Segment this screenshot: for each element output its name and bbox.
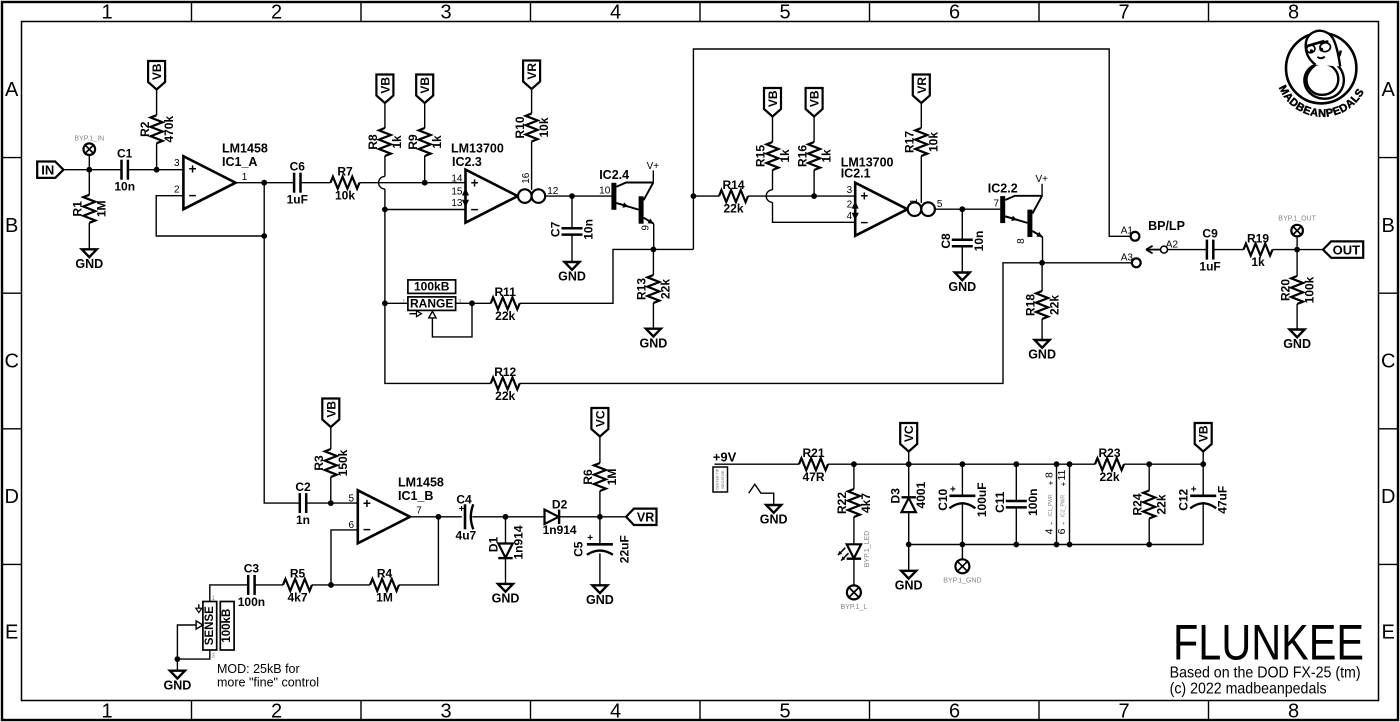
jack sleeve squiggle <box>749 484 774 505</box>
ground at C7 <box>565 262 580 270</box>
svg-text:3: 3 <box>847 185 853 196</box>
junction R14 node <box>691 193 697 199</box>
svg-text:R21: R21 <box>802 446 824 460</box>
svg-text:IC2.2: IC2.2 <box>988 182 1018 196</box>
IC1 power pins 8/4 <box>1056 464 1058 544</box>
svg-text:4: 4 <box>847 211 853 222</box>
svg-text:R1: R1 <box>71 201 85 217</box>
wire R19 to OUT node <box>1273 249 1324 251</box>
svg-text:IN: IN <box>41 163 54 178</box>
junction C8 node <box>959 206 965 212</box>
resistor R6 1M <box>594 463 606 491</box>
wire VB to R16 <box>813 117 815 143</box>
svg-text:A1: A1 <box>1121 225 1134 236</box>
wire emitter node to A3 <box>1042 262 1132 264</box>
wire VB to R2 <box>156 90 158 116</box>
resistor R4 1M <box>370 579 399 591</box>
svg-text:C: C <box>1381 350 1395 372</box>
wire BYP.1_OUT stub <box>1296 236 1298 249</box>
wire R17 to IC2.1 pin1 <box>920 156 922 203</box>
resistor R8 1k <box>379 128 391 156</box>
wire BYP.1_IN stub <box>88 155 90 170</box>
net label VR flag <box>626 509 656 525</box>
resistor R13 22k <box>647 275 659 303</box>
svg-text:BYP.1_OUT: BYP.1_OUT <box>1278 216 1316 223</box>
wire VC to R6 <box>599 437 601 464</box>
svg-text:GND: GND <box>492 592 520 606</box>
svg-text:2: 2 <box>847 200 853 211</box>
wire pin13 node to IC2.3 pin13 <box>385 209 466 211</box>
wire to GND at SENSE <box>176 659 178 671</box>
wire C6 to R7 <box>301 182 331 184</box>
wire C8 to GND <box>961 246 963 272</box>
svg-text:VR: VR <box>525 63 539 80</box>
pad A2 with arrow <box>1161 246 1168 253</box>
resistor R9 1k <box>419 128 431 156</box>
wire R16 to pin3 row <box>813 170 815 196</box>
svg-text:BYP.1_LED: BYP.1_LED <box>864 531 871 567</box>
svg-text:VC: VC <box>902 425 916 442</box>
junction R9 node <box>422 180 428 186</box>
global label OUT <box>1323 241 1363 257</box>
junction C4 node <box>436 514 442 520</box>
resistor R12 22k <box>491 377 520 389</box>
wire feedback node down to C2 row <box>264 236 300 503</box>
svg-text:CENTER TIP: CENTER TIP <box>715 468 719 490</box>
wire RANGE wiper to pin3 <box>432 303 472 337</box>
svg-text:9: 9 <box>641 225 652 231</box>
wire IC1_A output <box>236 182 295 184</box>
wire R10 to IC2.3 pin16 <box>531 142 533 190</box>
svg-text:+: + <box>1047 480 1056 485</box>
svg-text:5: 5 <box>937 199 943 210</box>
resistor R21 47R <box>799 458 828 470</box>
svg-text:+: + <box>1191 484 1197 495</box>
svg-text:C9: C9 <box>1202 226 1218 240</box>
svg-text:+: + <box>587 533 593 544</box>
wire R7 to IC2.3 pin14 <box>360 182 466 184</box>
svg-text:R15: R15 <box>754 145 768 167</box>
power flag VC (VC at rail) <box>900 423 917 452</box>
wire R1 to GND <box>88 223 90 250</box>
wire C11 top <box>1015 464 1017 501</box>
wire IC2.3 output <box>545 195 611 197</box>
svg-text:R14: R14 <box>722 178 744 192</box>
junction input node <box>86 167 92 173</box>
junction IC2.4 emitter node <box>651 247 657 253</box>
svg-text:C2: C2 <box>295 480 311 494</box>
svg-text:4: 4 <box>610 2 621 24</box>
wire pin13 node down to R12 row <box>385 210 491 384</box>
wire feedback loop top <box>693 49 1130 249</box>
resistor R19 1k <box>1244 244 1273 256</box>
resistor R24 22k <box>1143 491 1155 519</box>
svg-text:8: 8 <box>1016 238 1027 244</box>
svg-text:6: 6 <box>949 2 960 24</box>
op-amp IC2.3 LM13700 (OTA) <box>466 170 518 223</box>
svg-text:−: − <box>471 202 479 217</box>
svg-text:14: 14 <box>451 174 463 185</box>
svg-text:FLUNKEE: FLUNKEE <box>1173 614 1364 670</box>
IC2.3 output circles <box>518 189 532 203</box>
power flag VB (VB at R9) <box>416 75 433 104</box>
svg-text:LM13700: LM13700 <box>451 141 504 155</box>
svg-text:VB: VB <box>808 90 822 107</box>
svg-text:470k: 470k <box>162 116 176 143</box>
svg-text:R8: R8 <box>366 134 380 150</box>
svg-text:GND: GND <box>75 257 103 271</box>
wire output node down <box>263 183 265 236</box>
svg-text:8: 8 <box>1288 2 1299 24</box>
RANGE wiper <box>429 311 436 318</box>
svg-text:10n: 10n <box>114 180 135 194</box>
pad BYP.1_OUT pad <box>1291 225 1303 237</box>
svg-text:1k: 1k <box>390 135 404 149</box>
svg-text:1n914: 1n914 <box>543 523 577 537</box>
svg-text:100uF: 100uF <box>975 482 989 517</box>
power flag VB (VB at R16) <box>806 88 823 117</box>
svg-text:IC1_B: IC1_B <box>398 489 433 503</box>
potentiometer SENSE 100kB <box>203 602 217 651</box>
wire R24 bottom stub <box>1148 519 1150 545</box>
svg-text:47uF: 47uF <box>1216 486 1230 514</box>
power flag VB (VB at R8) <box>376 75 393 104</box>
wire VR node to C5 <box>599 517 601 545</box>
svg-text:16: 16 <box>521 172 532 184</box>
resistor R7 10k <box>331 177 360 189</box>
junction RANGE pin1 node <box>382 300 388 306</box>
svg-text:R6: R6 <box>581 469 595 485</box>
svg-text:2: 2 <box>174 185 180 196</box>
op-amp IC1_A LM1458 <box>183 156 235 209</box>
svg-text:C7: C7 <box>549 221 563 237</box>
svg-text:GND: GND <box>1283 337 1311 351</box>
wire IC1_A pin2 feedback <box>156 196 264 236</box>
svg-text:+: + <box>363 496 371 511</box>
resistor R14 22k <box>719 190 748 202</box>
svg-text:GND: GND <box>164 678 192 692</box>
wire C3 to R5 <box>255 584 283 586</box>
svg-text:E: E <box>1382 622 1395 644</box>
wire VC flag to rail <box>908 452 910 465</box>
svg-text:C: C <box>4 350 18 372</box>
capacitor C3 100n <box>247 575 250 595</box>
junction IC1_A output node <box>261 180 267 186</box>
ground at SENSE <box>170 671 185 679</box>
svg-text:IC1_PWR: IC1_PWR <box>1048 494 1054 517</box>
svg-text:R10: R10 <box>513 116 527 138</box>
svg-text:MOD: 25kB for: MOD: 25kB for <box>217 662 300 676</box>
svg-text:R17: R17 <box>903 131 917 153</box>
svg-text:A3: A3 <box>1121 252 1134 263</box>
svg-text:R18: R18 <box>1023 294 1037 316</box>
ground at C5 <box>592 585 607 593</box>
svg-text:V+: V+ <box>647 161 660 172</box>
wire VB flag to rail <box>1202 452 1204 465</box>
svg-text:15: 15 <box>451 187 463 198</box>
svg-text:1uF: 1uF <box>287 193 308 207</box>
LED BYP.1_LED <box>847 544 861 558</box>
svg-text:22uF: 22uF <box>617 535 631 563</box>
madbeanpedals logo <box>1286 31 1356 104</box>
resistor R20 100k <box>1291 276 1303 304</box>
op-amp IC2.1 LM13700 (OTA) <box>855 183 907 236</box>
junction VC node <box>906 461 912 467</box>
svg-text:3: 3 <box>440 700 451 722</box>
wire C10 bottom <box>961 502 963 545</box>
svg-text:C10: C10 <box>936 488 950 510</box>
svg-text:7: 7 <box>1118 700 1129 722</box>
wire R9 to pin14 row <box>424 156 426 183</box>
svg-text:IC2.3: IC2.3 <box>452 155 482 169</box>
svg-text:1k: 1k <box>430 135 444 149</box>
wire D1 stub <box>505 517 507 544</box>
ground at C8 <box>955 273 970 281</box>
wire R13 stub <box>652 249 654 275</box>
wire C3 to SENSE pin1 <box>210 585 248 602</box>
ground at jack sleeve <box>766 505 781 513</box>
junction R24 node <box>1146 461 1152 467</box>
svg-text:C8: C8 <box>939 233 953 249</box>
svg-text:GND: GND <box>640 336 668 350</box>
svg-text:C11: C11 <box>993 491 1007 513</box>
junction R16 node <box>811 193 817 199</box>
wire R3 to pin5 node <box>330 477 332 503</box>
svg-text:VR: VR <box>637 510 654 524</box>
global label IN <box>37 162 63 178</box>
svg-text:4001: 4001 <box>914 481 928 508</box>
svg-text:E: E <box>5 622 18 644</box>
svg-text:8: 8 <box>1043 472 1055 478</box>
svg-text:22k: 22k <box>1099 470 1119 484</box>
svg-text:D1: D1 <box>486 537 500 553</box>
svg-text:1n914: 1n914 <box>512 525 526 559</box>
svg-text:R5: R5 <box>290 567 306 581</box>
diode D3 4001 <box>902 496 916 498</box>
svg-text:1uF: 1uF <box>1199 260 1220 274</box>
svg-text:IC2.4: IC2.4 <box>599 168 629 182</box>
svg-text:D2: D2 <box>552 498 568 512</box>
junction OUT node <box>1294 247 1300 253</box>
wire R18 to GND <box>1041 319 1043 340</box>
wire VR to R17 <box>920 103 922 128</box>
svg-text:BYP.1_GND: BYP.1_GND <box>943 577 981 584</box>
svg-text:C3: C3 <box>244 562 260 576</box>
svg-text:R11: R11 <box>495 285 517 299</box>
wire R22 to LED <box>853 517 855 544</box>
resistor R1 1M <box>83 195 95 223</box>
svg-text:LM1458: LM1458 <box>398 476 444 490</box>
svg-text:SENSE: SENSE <box>204 606 216 645</box>
junction pin13 node <box>382 207 388 213</box>
wire R14 node to R14 <box>693 195 719 197</box>
svg-text:C4: C4 <box>456 492 472 506</box>
svg-text:3: 3 <box>174 158 180 169</box>
svg-text:GND: GND <box>895 578 923 592</box>
wire +9V rail <box>715 463 800 465</box>
svg-text:VB: VB <box>150 63 164 80</box>
resistor R15 1k <box>767 142 779 170</box>
svg-text:OUT: OUT <box>1333 242 1361 257</box>
wire R14 to IC2.1 pin3 <box>748 195 855 197</box>
svg-text:V+: V+ <box>1035 174 1048 185</box>
svg-text:-: - <box>1047 522 1056 525</box>
wire C2 to IC1_B pin5 <box>306 502 358 504</box>
ground at R20 <box>1290 330 1305 338</box>
op-amp IC1_B LM1458 <box>358 490 410 543</box>
IC2.1 linearizing diodes <box>852 201 859 209</box>
svg-text:C6: C6 <box>290 160 306 174</box>
svg-text:1: 1 <box>242 172 248 183</box>
wire emitter node left to R11 corner <box>520 249 654 303</box>
IC2 power pins 11/6 <box>1069 464 1071 544</box>
resistor R23 22k <box>1095 458 1124 470</box>
resistor R5 4k7 <box>283 579 312 591</box>
svg-text:10k: 10k <box>537 117 551 137</box>
power flag VB (VB at R15) <box>764 88 781 117</box>
wire R13 to GND <box>652 303 654 329</box>
capacitor C8 10n <box>952 239 973 242</box>
junction IC2.2 emitter node <box>1039 260 1045 266</box>
svg-text:−: − <box>189 188 197 203</box>
svg-text:7: 7 <box>1118 2 1129 24</box>
junction ground rail left node <box>906 542 912 548</box>
svg-text:6: 6 <box>949 700 960 722</box>
power flag VB (VB at C12) <box>1195 423 1212 452</box>
wire SENSE pin3 to ground node <box>177 650 209 659</box>
svg-text:BP/LP: BP/LP <box>1148 219 1185 233</box>
wire SENSE wiper to ground node <box>177 625 196 659</box>
junction SENSE ground node <box>175 656 181 662</box>
svg-text:5: 5 <box>779 700 790 722</box>
wire ground rail <box>909 544 1203 546</box>
svg-text:Based on the DOD FX-25 (tm): Based on the DOD FX-25 (tm) <box>1170 665 1361 682</box>
capacitor C9 1uF <box>1206 240 1209 260</box>
ground at R1 <box>82 249 97 257</box>
svg-text:1k: 1k <box>778 149 792 163</box>
svg-text:C1: C1 <box>117 147 133 161</box>
resistor R18 22k <box>1036 291 1048 319</box>
wire R22 stub <box>853 464 855 489</box>
svg-text:7: 7 <box>416 505 422 516</box>
svg-text:5: 5 <box>348 494 354 505</box>
svg-text:100kB: 100kB <box>221 609 233 643</box>
svg-text:R13: R13 <box>635 278 649 300</box>
svg-text:22k: 22k <box>1047 295 1061 315</box>
svg-text:R9: R9 <box>406 134 420 150</box>
svg-text:11: 11 <box>1056 469 1068 480</box>
svg-text:R20: R20 <box>1278 279 1292 301</box>
svg-text:more "fine" control: more "fine" control <box>217 676 319 690</box>
power flag VC (VC at R6) <box>591 408 608 437</box>
svg-text:R7: R7 <box>337 165 353 179</box>
junction R22 node <box>851 461 857 467</box>
svg-text:VB: VB <box>378 77 392 94</box>
wire IC2.1 output <box>935 208 1000 210</box>
svg-text:R4: R4 <box>377 567 393 581</box>
wire C8 stub <box>961 209 963 240</box>
resistor R17 10k <box>915 128 927 156</box>
wire VR to R10 <box>531 89 533 114</box>
svg-text:12: 12 <box>547 186 559 197</box>
svg-text:6: 6 <box>1056 528 1068 534</box>
wire R18 stub <box>1041 263 1043 291</box>
wire ground rail to BYP.1_GND pad <box>961 545 963 560</box>
wire R6 to VR node <box>599 491 601 517</box>
svg-text:10n: 10n <box>972 231 986 252</box>
svg-text:100k: 100k <box>1302 276 1316 303</box>
resistor R3 150k <box>325 449 337 477</box>
svg-text:22k: 22k <box>1155 494 1169 514</box>
svg-text:4k7: 4k7 <box>287 591 307 605</box>
svg-text:R24: R24 <box>1130 493 1144 515</box>
svg-text:VB: VB <box>1197 425 1211 442</box>
junction RANGE pin3 node <box>469 300 475 306</box>
svg-text:A: A <box>5 79 19 101</box>
svg-text:100n: 100n <box>1026 489 1040 516</box>
wire D3 to ground rail <box>908 512 910 544</box>
wire R8 down with hop <box>384 156 386 176</box>
svg-text:+: + <box>1059 481 1068 486</box>
svg-text:−: − <box>363 522 371 537</box>
svg-text:R12: R12 <box>494 365 516 379</box>
IC2.3 linearizing diodes <box>462 188 469 196</box>
svg-text:D: D <box>4 486 18 508</box>
svg-text:3: 3 <box>440 2 451 24</box>
junction VR node <box>597 514 603 520</box>
wire VB to R3 <box>330 427 332 449</box>
wire IN to C1 <box>63 169 121 171</box>
svg-text:1M: 1M <box>376 591 393 605</box>
svg-text:R16: R16 <box>795 145 809 167</box>
svg-text:150k: 150k <box>336 449 350 476</box>
capacitor C1 10n <box>120 160 123 180</box>
capacitor C11 100n <box>1006 500 1027 503</box>
svg-text:VR: VR <box>915 77 929 94</box>
svg-text:R3: R3 <box>312 455 326 471</box>
svg-text:D3: D3 <box>888 488 902 504</box>
ground at D1 <box>498 584 513 592</box>
wire R20 to GND <box>1296 304 1298 330</box>
wire VC node to D3 <box>908 464 910 497</box>
power flag VR (VR at R17) <box>913 75 930 104</box>
ground at R13 <box>646 329 661 337</box>
svg-text:+9V: +9V <box>713 449 737 464</box>
svg-text:22k: 22k <box>495 309 515 323</box>
svg-text:VB: VB <box>418 77 432 94</box>
pad A1 <box>1131 232 1140 241</box>
svg-text:1k: 1k <box>1251 255 1265 269</box>
svg-text:C12: C12 <box>1177 488 1191 510</box>
wire R2 to input node <box>156 143 158 170</box>
svg-text:GND: GND <box>760 513 788 527</box>
svg-text:-: - <box>1059 522 1068 525</box>
svg-text:2: 2 <box>271 700 282 722</box>
wire R4 to output riser <box>399 517 438 585</box>
svg-text:A2: A2 <box>1166 239 1179 250</box>
capacitor C12 47uF <box>1190 494 1216 497</box>
svg-text:+: + <box>189 162 197 177</box>
power flag VB (VB at R3) <box>322 399 339 428</box>
power flag VR (VR at R10) <box>523 61 540 90</box>
IC2.1 output circles <box>908 202 922 216</box>
svg-text:22k: 22k <box>659 279 673 299</box>
wire IC2.2 emitter down <box>1042 237 1044 263</box>
junction feedback node <box>261 233 267 239</box>
pad BYP.1_L pad <box>847 585 861 599</box>
diode D2 1n914 <box>545 510 559 524</box>
junction D1 node <box>503 514 509 520</box>
